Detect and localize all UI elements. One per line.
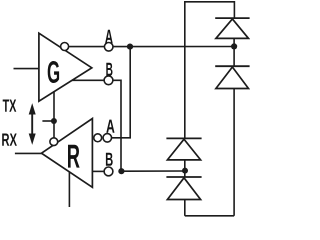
wire: B row across to left diode chain bbox=[121, 170, 185, 172]
wire: G output to node A bbox=[69, 46, 105, 48]
wire: node B down to B row bbox=[113, 80, 121, 171]
wire: enable line from G bottom edge to R bbox=[53, 91, 55, 137]
label TX bbox=[3, 100, 17, 112]
wire: G driver input stub bbox=[14, 68, 39, 70]
bubble on R enable (top edge of R) bbox=[50, 138, 58, 146]
bubble on G output (on top edge) bbox=[61, 43, 69, 51]
junction right chain / A bbox=[231, 43, 237, 49]
wire: RX output stub bbox=[15, 152, 42, 154]
wire: G output B from bottom edge bbox=[72, 79, 104, 81]
wire: node A across to right diode chain bbox=[113, 46, 234, 48]
diode D1 (top right) bbox=[215, 18, 249, 46]
wire: R edge to node B circle bbox=[92, 170, 104, 172]
label A (driver side) bbox=[105, 30, 113, 44]
junction left chain / B bbox=[182, 168, 188, 174]
junction B bbox=[118, 168, 124, 174]
label RX bbox=[2, 134, 17, 146]
diode D4 (left chain lower) bbox=[166, 171, 201, 216]
wire: enable stub bbox=[42, 120, 54, 122]
junction A bbox=[127, 44, 133, 50]
wire: R enable stub down bbox=[68, 172, 70, 207]
wire: A junction down to receiver input A bbox=[112, 47, 131, 138]
direction arrow (double headed) bbox=[29, 103, 36, 145]
wire: left chain vertical + top rail + right drop bbox=[185, 2, 235, 139]
label B (receiver side) bbox=[106, 153, 113, 166]
node A terminal circle (driver side) bbox=[104, 43, 113, 52]
junction enable bbox=[51, 118, 57, 124]
diode D2 (right, below A junction) bbox=[215, 46, 249, 215]
bubble on R input A bbox=[94, 134, 102, 142]
G driver label bbox=[48, 61, 59, 83]
op-amp R (receiver triangle) bbox=[42, 119, 93, 188]
node A terminal circle (receiver side) bbox=[103, 134, 112, 143]
node B terminal circle (receiver side) bbox=[104, 167, 113, 176]
diode D3 (left chain upper) bbox=[166, 138, 201, 170]
op-amp G (driver triangle) bbox=[39, 33, 92, 101]
label A (receiver side) bbox=[106, 120, 114, 133]
node B terminal circle (driver side) bbox=[104, 76, 113, 85]
R receiver label bbox=[68, 145, 80, 168]
label B (driver side) bbox=[106, 63, 112, 76]
wire: bottom rail of diode bus bbox=[185, 215, 234, 217]
